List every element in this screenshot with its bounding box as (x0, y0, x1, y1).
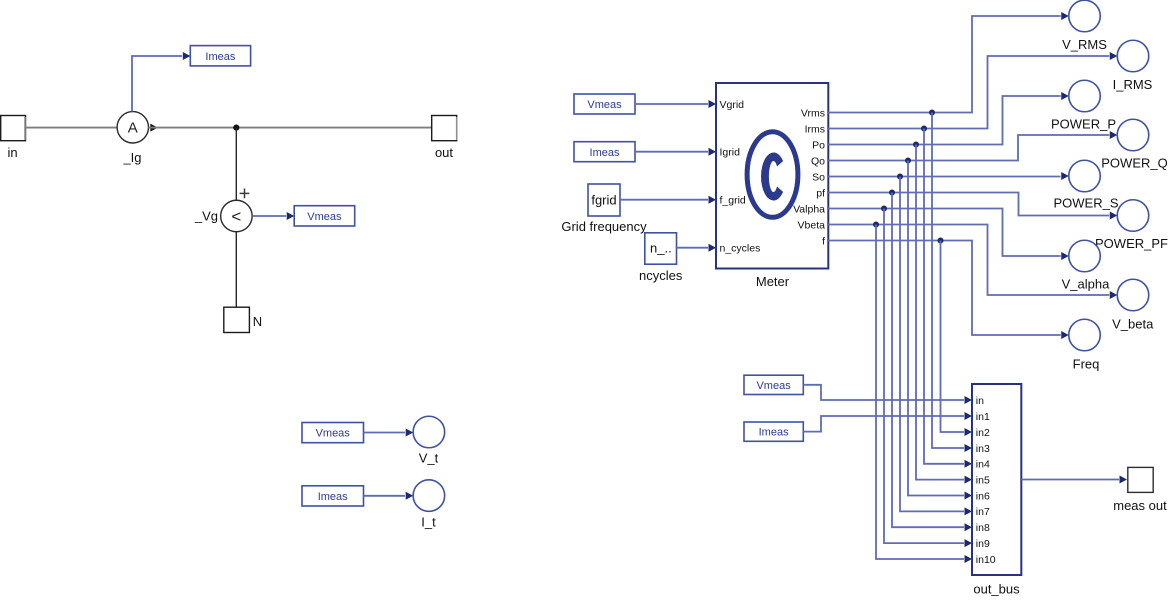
svg-text:in7: in7 (976, 506, 990, 518)
voltmeter _Vg (194, 200, 252, 232)
junction Qo (905, 158, 911, 164)
svg-text:pf: pf (816, 187, 825, 199)
from Vmeas (meter) (574, 94, 635, 114)
junction Valpha (881, 206, 887, 212)
meter logo C (761, 153, 783, 201)
wire Qo drop to bus (908, 161, 964, 496)
svg-text:n_cycles: n_cycles (720, 243, 761, 255)
svg-text:N: N (253, 314, 262, 329)
scope POWER_P (1051, 80, 1116, 131)
wire Vrms drop to bus (932, 113, 964, 449)
svg-text:Vgrid: Vgrid (720, 99, 745, 111)
from Vmeas (bus) (744, 375, 803, 394)
svg-text:So: So (812, 171, 825, 183)
arrow after ammeter (150, 124, 158, 132)
scope POWER_Q (1101, 119, 1167, 170)
svg-text:Vmeas: Vmeas (587, 99, 622, 111)
wire pf out (828, 193, 1109, 216)
svg-text:fgrid: fgrid (591, 192, 616, 207)
wire f drop to bus (941, 241, 965, 433)
svg-text:f: f (822, 235, 825, 247)
goto Imeas (190, 46, 250, 66)
svg-text:in3: in3 (976, 443, 990, 455)
wire pf drop to bus (892, 193, 964, 528)
wire junction down to voltmeter (235, 128, 237, 201)
wire So out (828, 176, 1061, 178)
svg-text:n_..: n_.. (650, 241, 672, 256)
port N (224, 307, 262, 332)
svg-text:<: < (231, 207, 241, 226)
junction Po (913, 142, 919, 148)
svg-text:Imeas: Imeas (318, 491, 348, 503)
constant ncycles (639, 233, 683, 283)
svg-text:POWER_S: POWER_S (1053, 196, 1118, 211)
svg-text:Po: Po (812, 139, 825, 151)
svg-text:in: in (7, 145, 17, 160)
wire Imeas to I_t (364, 495, 406, 497)
junction node (233, 125, 239, 131)
junction Vrms (929, 110, 935, 116)
svg-text:Vrms: Vrms (801, 107, 825, 119)
wire Irms drop to bus (924, 129, 964, 464)
svg-text:I_t: I_t (421, 515, 436, 530)
wire Po drop to bus (916, 145, 964, 480)
svg-text:Vmeas: Vmeas (756, 380, 791, 392)
plus sign (240, 189, 250, 199)
wire Vrms out (828, 16, 1061, 113)
svg-text:V_alpha: V_alpha (1062, 277, 1110, 292)
svg-text:Freq: Freq (1073, 357, 1100, 372)
scope I_RMS (1113, 40, 1153, 92)
port meas out (1113, 467, 1167, 513)
wire voltmeter down to N (235, 232, 237, 307)
junction So (897, 174, 903, 180)
wire Vmeas to V_t (364, 432, 406, 434)
svg-text:Valpha: Valpha (793, 203, 825, 215)
wire Valpha drop to bus (884, 209, 964, 544)
wire voltmeter to Vmeas goto (252, 215, 286, 217)
scope V_RMS (1062, 0, 1107, 52)
svg-text:out: out (435, 145, 453, 160)
meter logo ellipse (747, 132, 798, 218)
svg-text:Imeas: Imeas (759, 427, 789, 439)
svg-text:in1: in1 (976, 411, 990, 423)
svg-text:POWER_P: POWER_P (1051, 117, 1116, 132)
svg-text:Qo: Qo (811, 155, 825, 167)
svg-text:A: A (128, 120, 138, 137)
svg-text:ncycles: ncycles (639, 268, 683, 283)
svg-text:V_t: V_t (419, 451, 439, 466)
svg-text:Vbeta: Vbeta (798, 219, 826, 231)
junction f (938, 238, 944, 244)
svg-text:out_bus: out_bus (973, 582, 1020, 597)
svg-text:V_RMS: V_RMS (1062, 37, 1107, 52)
from Vmeas (V_t) (302, 423, 364, 443)
port out (432, 116, 457, 161)
scope I_t (413, 480, 445, 530)
svg-text:meas out: meas out (1113, 498, 1167, 513)
wire Vmeas to Vgrid (635, 103, 708, 105)
wire So drop to bus (900, 177, 964, 512)
ammeter _Ig (117, 112, 148, 165)
wire Valpha out (828, 209, 1061, 257)
svg-text:in9: in9 (976, 538, 990, 550)
junction pf (889, 190, 895, 196)
svg-text:in4: in4 (976, 459, 990, 471)
svg-text:Vmeas: Vmeas (307, 211, 342, 223)
wire Qo out (828, 135, 1109, 161)
mux out_bus (972, 384, 1021, 597)
from Imeas (I_t) (302, 486, 364, 506)
svg-text:f_grid: f_grid (720, 195, 746, 207)
scope POWER_S (1053, 160, 1118, 210)
wire ammeter up to Imeas goto (132, 56, 182, 112)
wire Po out (828, 96, 1061, 145)
scope V_beta (1112, 279, 1154, 331)
scope V_t (413, 416, 445, 465)
svg-text:_Ig: _Ig (122, 150, 141, 165)
svg-text:Grid frequency: Grid frequency (561, 219, 647, 234)
wire Vbeta drop to bus (876, 225, 964, 560)
junction Vbeta (873, 222, 879, 228)
wire ammeter to out (149, 127, 432, 129)
svg-text:_Vg: _Vg (194, 209, 218, 224)
subsystem Meter (716, 83, 828, 289)
svg-text:POWER_PF: POWER_PF (1095, 236, 1168, 251)
wire out_bus to meas out (1021, 479, 1119, 481)
svg-text:Imeas: Imeas (205, 51, 235, 63)
wire in to ammeter (26, 127, 117, 129)
svg-text:POWER_Q: POWER_Q (1101, 156, 1167, 171)
scope POWER_PF (1095, 200, 1168, 251)
svg-text:in10: in10 (976, 554, 996, 566)
wire ncycles to n_cycles (677, 247, 709, 249)
svg-text:in: in (976, 395, 984, 407)
svg-text:Imeas: Imeas (590, 147, 620, 159)
wire Imeas to bus in1 (803, 416, 964, 432)
svg-text:in2: in2 (976, 427, 990, 439)
svg-text:Irms: Irms (805, 123, 825, 135)
from Imeas (meter) (574, 142, 635, 162)
wire Vmeas to bus in (803, 385, 964, 400)
goto Vmeas (294, 206, 355, 226)
wire f out (828, 241, 1061, 336)
svg-text:Meter: Meter (756, 274, 790, 289)
svg-text:Vmeas: Vmeas (316, 428, 351, 440)
svg-text:I_RMS: I_RMS (1113, 77, 1153, 92)
from Imeas (bus) (744, 422, 803, 441)
svg-text:in5: in5 (976, 474, 990, 486)
port in (1, 116, 26, 161)
constant fgrid (561, 184, 647, 234)
svg-text:V_beta: V_beta (1112, 317, 1154, 332)
scope Freq (1069, 319, 1101, 371)
wire Irms out (828, 56, 1109, 129)
wire Imeas to Igrid (635, 151, 708, 153)
svg-text:in6: in6 (976, 490, 990, 502)
junction Irms (921, 126, 927, 132)
svg-text:in8: in8 (976, 522, 990, 534)
wire Vbeta out (828, 225, 1109, 296)
wire fgrid to f_grid (620, 199, 708, 201)
svg-text:Igrid: Igrid (720, 147, 741, 159)
scope V_alpha (1062, 240, 1110, 291)
